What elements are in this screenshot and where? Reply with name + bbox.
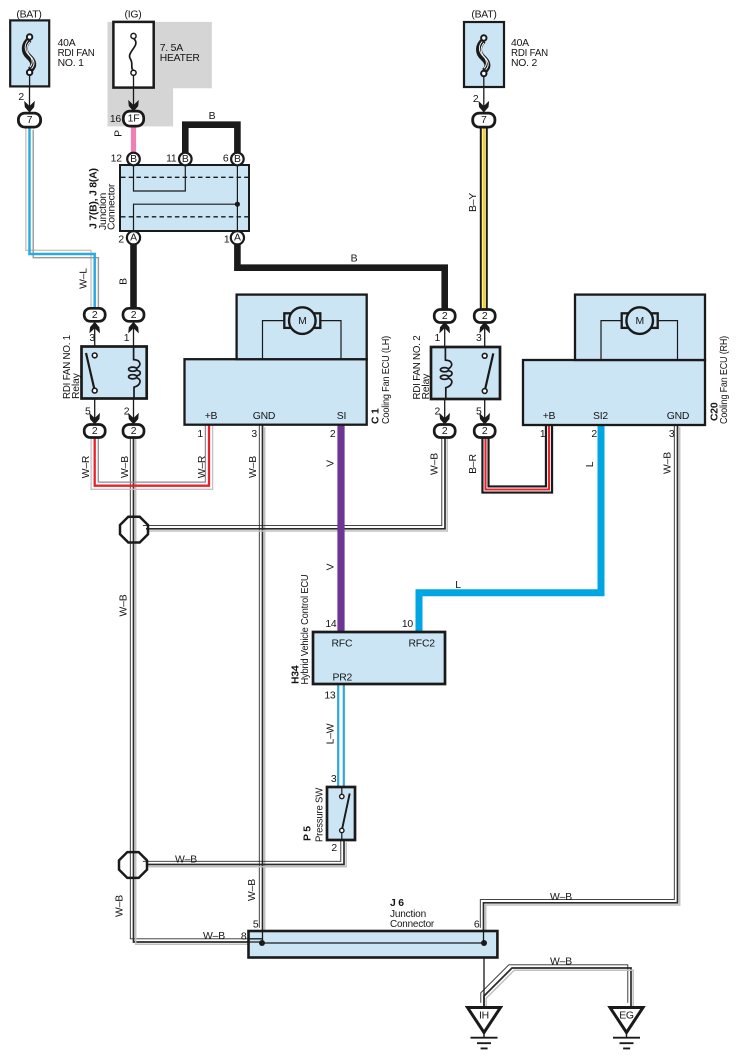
- svg-text:Cooling Fan ECU (RH): Cooling Fan ECU (RH): [719, 336, 730, 424]
- motor LH internal wires: [263, 321, 342, 360]
- svg-text:3: 3: [669, 429, 675, 440]
- svg-text:W–B: W–B: [550, 957, 572, 968]
- fuse box 7.5A HEATER (IG): [113, 22, 153, 88]
- svg-text:2: 2: [591, 429, 597, 440]
- svg-text:B: B: [209, 111, 216, 122]
- junction connector dashed lines: [121, 176, 248, 178]
- ground IH: [468, 1008, 501, 1049]
- svg-text:W–B: W–B: [429, 453, 440, 475]
- arrow relay2 pin2 down: [439, 413, 450, 425]
- svg-text:2: 2: [442, 311, 448, 322]
- oval 7 right: [473, 113, 495, 127]
- J6 wire to ground IH: [483, 942, 485, 1008]
- svg-text:W–B: W–B: [120, 456, 131, 478]
- svg-text:(BAT): (BAT): [16, 9, 41, 20]
- relay RDI FAN NO.1: [82, 347, 147, 399]
- relay1 pin1 lead: [133, 323, 135, 347]
- svg-text:3: 3: [476, 333, 482, 344]
- svg-text:HEATER: HEATER: [160, 53, 201, 64]
- relay1 pin3 lead: [94, 323, 96, 347]
- svg-text:5: 5: [85, 407, 91, 418]
- wire B-Y fuse RDI FAN NO.2 to relay2: [481, 128, 487, 313]
- arrow relay1 pin3 up: [89, 322, 100, 334]
- junction internal wire 2A: [134, 204, 238, 231]
- svg-text:Pressure SW: Pressure SW: [315, 788, 326, 842]
- svg-text:Hybrid Vehicle Control ECU: Hybrid Vehicle Control ECU: [300, 575, 311, 685]
- svg-text:W–B: W–B: [247, 879, 258, 901]
- svg-text:B–Y: B–Y: [468, 193, 479, 212]
- junction internal wire 6-1: [236, 165, 238, 231]
- svg-text:2: 2: [435, 407, 441, 418]
- svg-text:PR2: PR2: [333, 673, 353, 684]
- svg-text:B: B: [234, 154, 241, 165]
- svg-text:1: 1: [197, 429, 203, 440]
- svg-text:W–B: W–B: [175, 855, 197, 866]
- svg-text:10: 10: [402, 619, 414, 630]
- relay2 pin5 lead: [484, 399, 486, 424]
- svg-text:RFC: RFC: [332, 639, 353, 650]
- arrow into oval 1F: [128, 100, 139, 112]
- svg-text:1: 1: [435, 333, 441, 344]
- oval 2 (W-B): [123, 425, 144, 438]
- arrow into oval 7 left: [24, 101, 35, 113]
- thin lead fuse1 to oval7: [29, 87, 31, 114]
- svg-text:11: 11: [166, 154, 177, 165]
- wire B junction loop pins 11-6: [185, 125, 237, 161]
- wire P (pink) 1F to junction pin12: [131, 126, 136, 159]
- svg-text:1: 1: [224, 234, 230, 245]
- junction internal wire 12-11: [134, 165, 186, 191]
- cooling fan ECU RH body: [523, 360, 705, 425]
- svg-text:6: 6: [223, 154, 229, 165]
- svg-text:Connector: Connector: [390, 919, 435, 930]
- J6 pin8 stub: [249, 939, 262, 942]
- svg-text:8: 8: [241, 932, 247, 943]
- svg-text:B: B: [351, 254, 358, 265]
- svg-text:A: A: [234, 233, 241, 244]
- oval 2 (W-R): [84, 425, 105, 438]
- svg-text:EG: EG: [619, 1011, 634, 1022]
- wire W-B J6 to ground EG: [481, 965, 633, 1008]
- J6 node dot left: [259, 940, 265, 946]
- svg-text:W–B: W–B: [115, 895, 126, 917]
- svg-text:2: 2: [92, 310, 98, 321]
- J6 pin5 stub: [262, 931, 264, 943]
- svg-text:W–B: W–B: [550, 892, 572, 903]
- svg-text:7: 7: [481, 115, 487, 126]
- motor LH brushes: [284, 313, 291, 328]
- svg-text:P: P: [114, 130, 125, 137]
- fuse symbol 2: [479, 35, 488, 87]
- svg-text:L: L: [585, 461, 596, 467]
- oval 7 left: [18, 113, 40, 127]
- fuse symbol 1: [25, 34, 34, 87]
- svg-text:SI: SI: [337, 411, 346, 422]
- relay1 pin2 lead: [133, 399, 135, 425]
- svg-text:2: 2: [331, 843, 337, 854]
- svg-text:13: 13: [324, 691, 336, 702]
- svg-text:GND: GND: [667, 411, 690, 422]
- svg-text:W–B: W–B: [203, 931, 225, 942]
- octagon junction 1: [120, 517, 148, 543]
- svg-text:W–L: W–L: [79, 268, 90, 289]
- ground EG: [610, 1008, 643, 1049]
- wire V C1 SI to H34 RFC: [337, 425, 344, 633]
- oval 2 (B right): [434, 310, 455, 323]
- relay2 switch: [482, 353, 493, 393]
- junction pin circle 11 B: [179, 153, 192, 166]
- wire W-B C20 GND down to J6 pin6: [480, 422, 679, 933]
- wire W-R relay1 pin5 to C1 +B: [91, 425, 213, 489]
- cooling fan ECU LH body: [185, 359, 367, 425]
- wire W-B relay2 pin2 to octagon1: [143, 431, 447, 531]
- motor RH brushes: [622, 313, 629, 328]
- junction pin circle 1 A: [231, 231, 244, 244]
- pressure switch contacts: [340, 787, 350, 840]
- svg-text:+B: +B: [205, 411, 218, 422]
- svg-text:Cooling Fan ECU (LH): Cooling Fan ECU (LH): [381, 336, 392, 424]
- svg-text:Connector: Connector: [107, 183, 118, 230]
- relay1 switch: [86, 353, 97, 393]
- svg-text:3: 3: [251, 429, 257, 440]
- svg-text:12: 12: [111, 154, 123, 165]
- relay2 pin2 lead: [444, 399, 446, 424]
- svg-text:Relay: Relay: [71, 372, 82, 399]
- relay1 coil: [129, 347, 141, 399]
- J6 internal wire: [262, 942, 484, 944]
- svg-text:SI2: SI2: [593, 411, 608, 422]
- svg-text:2: 2: [18, 92, 24, 103]
- svg-text:(BAT): (BAT): [471, 9, 496, 20]
- svg-text:5: 5: [476, 407, 482, 418]
- arrow relay1 pin1 up: [128, 322, 139, 334]
- svg-text:1: 1: [124, 333, 130, 344]
- arrow relay2 pin1 up: [439, 322, 450, 334]
- svg-text:Relay: Relay: [421, 373, 432, 400]
- cooling fan ECU LH motor housing: [237, 295, 367, 360]
- oval 2 (B): [123, 308, 144, 321]
- junction connector J7(B) J8(A): [120, 165, 249, 231]
- arrow relay2 pin5 down: [479, 413, 490, 425]
- oval 2 (B-R): [474, 425, 495, 438]
- relay2 coil: [440, 347, 452, 399]
- junction connector J6: [249, 931, 498, 958]
- svg-text:16: 16: [110, 114, 122, 125]
- J6 pin6 stub: [483, 931, 485, 943]
- arrow into oval 7 right: [479, 101, 490, 113]
- svg-text:14: 14: [325, 619, 337, 630]
- wire B-R relay2 pin5 to C20 +B: [482, 425, 552, 493]
- wire W-B pressure SW pin2 to octagon2: [143, 837, 346, 867]
- relay RDI FAN NO.2: [431, 347, 500, 399]
- oval 2 (B-Y): [474, 310, 495, 323]
- junction internal node dot: [235, 202, 240, 207]
- relay2 pin3 lead: [484, 323, 486, 347]
- H34 hybrid vehicle control ECU: [313, 632, 445, 684]
- svg-text:2: 2: [124, 407, 130, 418]
- thin lead fuse2 to oval7: [483, 87, 485, 113]
- svg-text:1: 1: [540, 429, 546, 440]
- svg-text:NO. 1: NO. 1: [58, 58, 85, 69]
- junction pin circle 6 B: [231, 153, 244, 166]
- svg-text:3: 3: [331, 774, 337, 785]
- svg-text:GND: GND: [253, 411, 276, 422]
- svg-text:V: V: [326, 460, 337, 467]
- svg-text:RFC2: RFC2: [409, 639, 436, 650]
- fuse symbol IG: [130, 33, 137, 87]
- J6 node dot right: [481, 940, 487, 946]
- svg-text:6: 6: [474, 920, 480, 931]
- svg-text:3: 3: [89, 333, 95, 344]
- wire W-L (fuse RDI FAN NO.1 to relay): [26, 122, 99, 314]
- wire B junction 1A to relay2: [237, 240, 444, 313]
- svg-text:B: B: [182, 154, 189, 165]
- oval 2 (W-B right): [434, 425, 455, 438]
- oval 1F: [123, 111, 143, 126]
- wire W-B C1 GND down to J6 pin5: [259, 422, 264, 933]
- wire B junction 2A down: [130, 240, 137, 313]
- wire L C20 SI2 to H34 RFC2: [419, 425, 601, 633]
- svg-text:W–R: W–R: [197, 455, 208, 478]
- svg-text:2: 2: [131, 310, 137, 321]
- relay2 pin1 lead: [444, 323, 446, 347]
- svg-text:C 1: C 1: [371, 408, 382, 424]
- gray background region (IG circuit area): [108, 22, 212, 127]
- svg-text:5: 5: [253, 920, 259, 931]
- svg-text:B: B: [118, 278, 129, 285]
- svg-text:2: 2: [330, 429, 336, 440]
- svg-text:W–B: W–B: [248, 456, 259, 478]
- wire W-B relay1 pin2 down through octagons to J6 pin8: [130, 431, 264, 944]
- svg-text:1F: 1F: [128, 113, 140, 124]
- thin lead IG fuse to 1F: [133, 88, 135, 111]
- svg-text:2: 2: [482, 311, 488, 322]
- oval 2 (W-L): [84, 308, 105, 321]
- svg-text:NO. 2: NO. 2: [511, 58, 538, 69]
- svg-text:P 5: P 5: [303, 826, 314, 841]
- svg-text:2: 2: [131, 426, 137, 437]
- motor RH internal wires: [601, 321, 678, 360]
- svg-text:(IG): (IG): [124, 9, 141, 20]
- svg-text:M: M: [635, 316, 643, 327]
- relay1 pin5 lead: [94, 399, 96, 425]
- motor RH circle: [626, 307, 653, 334]
- pressure SW P5: [327, 787, 355, 840]
- motor LH circle: [289, 307, 316, 334]
- arrow relay1 pin5 down: [89, 413, 100, 425]
- svg-text:2: 2: [442, 426, 448, 437]
- svg-text:2: 2: [92, 426, 98, 437]
- svg-text:2: 2: [473, 94, 479, 105]
- svg-text:2: 2: [482, 426, 488, 437]
- svg-text:J 6: J 6: [390, 898, 404, 909]
- svg-text:+B: +B: [543, 411, 556, 422]
- svg-text:W–B: W–B: [663, 452, 674, 474]
- junction pin circle 12 B: [127, 153, 140, 166]
- svg-text:IH: IH: [479, 1011, 489, 1022]
- svg-text:B: B: [130, 154, 137, 165]
- svg-text:7: 7: [27, 115, 33, 126]
- svg-text:A: A: [130, 233, 137, 244]
- fuse box 40A RDI FAN NO.1: [10, 20, 49, 86]
- wire L-W H34 PR2 to pressure SW: [338, 684, 344, 788]
- svg-text:V: V: [326, 563, 337, 570]
- svg-text:L: L: [455, 580, 461, 591]
- fuse box 40A RDI FAN NO.2: [464, 22, 504, 87]
- arrow relay2 pin3 up: [479, 322, 490, 334]
- junction pin circle 2 A: [127, 231, 140, 244]
- cooling fan ECU RH motor housing: [575, 295, 705, 360]
- svg-text:W–B: W–B: [119, 594, 130, 616]
- arrow relay1 pin2 down: [128, 413, 139, 425]
- svg-text:W–R: W–R: [81, 455, 92, 478]
- svg-text:M: M: [298, 316, 306, 327]
- octagon junction 2: [119, 852, 147, 878]
- svg-text:2: 2: [118, 234, 124, 245]
- svg-text:L–W: L–W: [326, 723, 337, 744]
- svg-text:B–R: B–R: [468, 454, 479, 474]
